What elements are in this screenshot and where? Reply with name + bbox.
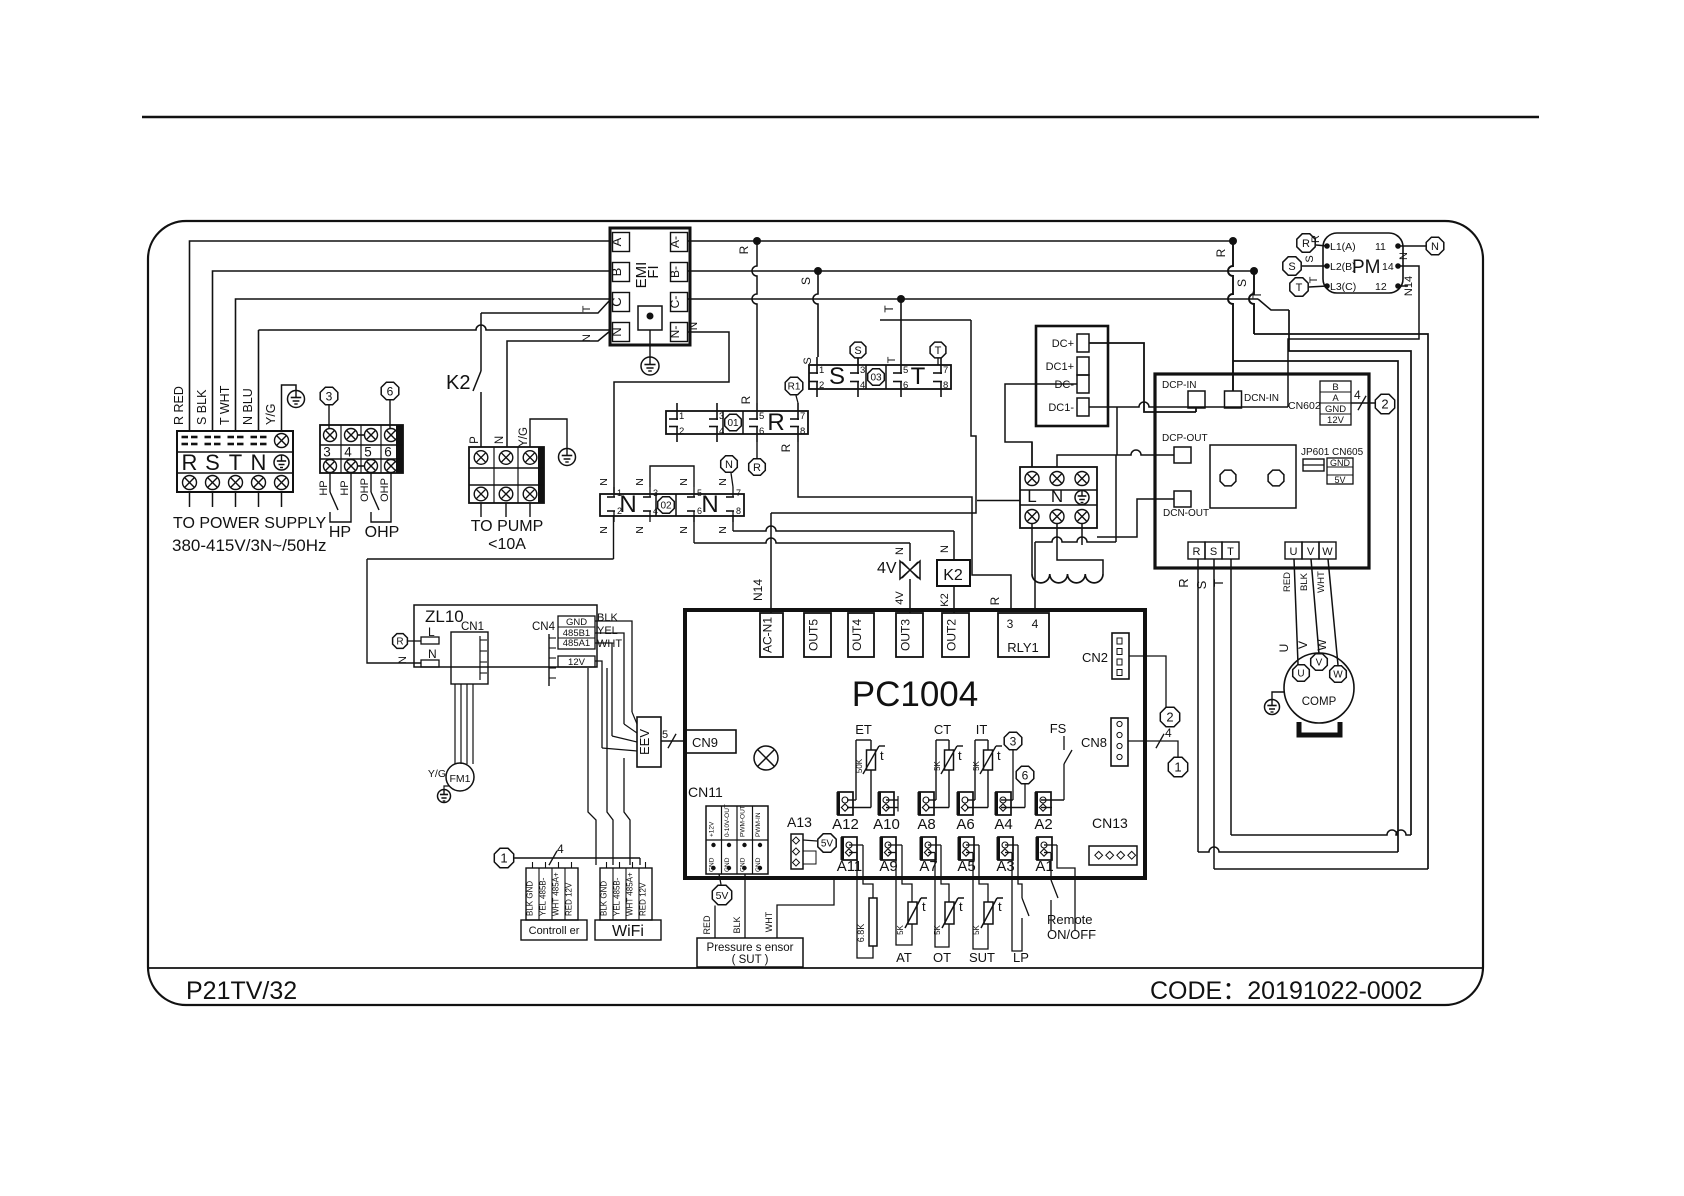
svg-text:3: 3 (653, 488, 658, 498)
svg-text:R: R (767, 409, 784, 436)
earth symbol (power supply) (288, 391, 305, 408)
svg-text:5: 5 (697, 488, 702, 498)
svg-text:CN11: CN11 (688, 784, 723, 800)
wire stub y500 (977, 500, 1020, 502)
wire T jog (1258, 299, 1289, 310)
svg-text:02: 02 (660, 501, 672, 512)
wire DC+ to DCP-IN (1089, 343, 1196, 412)
svg-text:8: 8 (943, 380, 948, 391)
svg-text:C: C (609, 297, 624, 306)
thermistor AT (902, 845, 912, 902)
switch Remote ON/OFF (1050, 853, 1052, 880)
svg-text:5: 5 (903, 365, 908, 376)
svg-text:6: 6 (387, 384, 394, 398)
svg-text:4V: 4V (877, 560, 897, 577)
relay block S/T (03) (809, 365, 951, 389)
svg-text:A4: A4 (994, 816, 1012, 833)
svg-text:R: R (396, 637, 403, 648)
terminal OUT5 (804, 613, 831, 657)
svg-text:A13: A13 (787, 814, 812, 830)
terminal OUT2 (942, 613, 969, 657)
svg-text:S: S (205, 450, 220, 475)
svg-text:N: N (1398, 252, 1410, 260)
wire T WHT (236, 299, 611, 431)
controller terminal strip (526, 868, 578, 920)
wire V (1311, 559, 1319, 654)
svg-text:R: R (753, 462, 761, 474)
svg-text:V: V (1316, 658, 1323, 669)
thermistor OT (941, 845, 949, 902)
svg-text:5: 5 (759, 411, 764, 422)
svg-text:5V: 5V (1334, 475, 1345, 485)
svg-text:T: T (1211, 579, 1226, 587)
svg-text:6: 6 (759, 426, 764, 437)
svg-text:L3(C): L3(C) (1330, 281, 1356, 293)
svg-text:A6: A6 (956, 816, 974, 833)
svg-text:R: R (1176, 578, 1191, 587)
net ref T (930, 342, 946, 358)
svg-text:N: N (428, 647, 437, 661)
wire N block pin2 (613, 515, 615, 559)
svg-text:4: 4 (719, 426, 724, 437)
wire PM 12 stub (1398, 285, 1408, 287)
DCP-IN square (1188, 391, 1205, 408)
svg-text:R: R (737, 245, 751, 254)
inverter power board (1155, 374, 1369, 568)
svg-text:W: W (1333, 670, 1343, 681)
svg-text:N: N (609, 327, 624, 336)
svg-text:N: N (678, 478, 690, 486)
wire N14 riser (771, 320, 976, 513)
svg-text:6: 6 (903, 380, 908, 391)
svg-text:2: 2 (819, 380, 824, 391)
EMI ground (649, 330, 651, 357)
svg-text:DCN-IN: DCN-IN (1244, 393, 1279, 404)
svg-text:HP: HP (339, 480, 351, 495)
svg-text:N-: N- (668, 326, 682, 339)
net ref S (850, 342, 866, 358)
svg-text:OUT5: OUT5 (807, 619, 821, 651)
svg-text:5K: 5K (933, 760, 942, 770)
terminals R S T (1188, 542, 1205, 559)
svg-text:S: S (1210, 546, 1217, 558)
DC terminal block (1036, 326, 1108, 426)
wire L top (1031, 442, 1033, 467)
svg-text:11: 11 (1375, 241, 1386, 253)
wire CN2 to ref 2 (1129, 656, 1166, 708)
svg-text:B: B (609, 268, 624, 277)
svg-text:N14: N14 (751, 579, 765, 601)
svg-text:8: 8 (800, 426, 805, 437)
svg-text:L: L (1027, 487, 1036, 506)
connector row A11..A1 (842, 837, 857, 860)
svg-text:OHP: OHP (359, 478, 371, 502)
svg-text:( SUT ): ( SUT ) (732, 954, 769, 966)
svg-text:RED: RED (1282, 572, 1293, 592)
svg-text:YEL: YEL (597, 625, 618, 637)
svg-text:t: t (998, 899, 1002, 914)
svg-text:S: S (802, 357, 814, 364)
svg-text:R RED: R RED (172, 386, 186, 425)
svg-text:3: 3 (1007, 617, 1014, 631)
svg-text:FI: FI (645, 265, 662, 278)
svg-text:N: N (634, 478, 646, 486)
svg-text:BLK: BLK (597, 612, 618, 624)
svg-text:N: N (678, 526, 690, 534)
wire pin8 to K2 coil (733, 526, 954, 531)
svg-text:BLK: BLK (732, 916, 742, 933)
svg-text:PM: PM (1352, 257, 1381, 278)
svg-text:CODE：20191022-0002: CODE：20191022-0002 (1150, 977, 1422, 1005)
svg-text:4V: 4V (894, 591, 906, 605)
svg-text:OHP: OHP (365, 524, 400, 541)
svg-text:7: 7 (943, 365, 948, 376)
svg-text:K2: K2 (939, 593, 951, 606)
svg-text:SUT: SUT (969, 950, 995, 965)
DCN-OUT square (1174, 491, 1191, 507)
svg-text:GND: GND (1325, 404, 1346, 415)
wire U (1294, 559, 1298, 664)
svg-text:Y/G: Y/G (264, 403, 278, 425)
svg-text:N: N (598, 526, 610, 534)
wire DCN-OUT link (1097, 499, 1174, 537)
terminal RLY1 (998, 613, 1049, 657)
CN2 connector (1112, 633, 1129, 679)
svg-text:V: V (1296, 641, 1310, 649)
wire N- from EMI (614, 332, 729, 493)
svg-text:N: N (701, 491, 718, 518)
svg-text:t: t (959, 899, 963, 914)
svg-text:R: R (1214, 248, 1228, 257)
svg-text:1: 1 (679, 411, 684, 422)
svg-text:FM1: FM1 (450, 773, 471, 785)
FM1 earth (444, 786, 449, 790)
EEV driver (637, 717, 661, 767)
svg-text:4: 4 (557, 842, 564, 856)
svg-text:DC1-: DC1- (1048, 402, 1074, 414)
net ref N (721, 456, 738, 473)
wire P to EMI C (481, 300, 610, 313)
svg-text:BLK: BLK (1299, 572, 1310, 591)
svg-text:YEL 485B-: YEL 485B- (539, 877, 548, 916)
svg-text:4: 4 (653, 506, 658, 516)
wire bus R (A-) (688, 240, 1233, 242)
svg-text:CN2: CN2 (1082, 650, 1108, 665)
junction S (814, 267, 822, 275)
svg-text:N: N (717, 526, 729, 534)
svg-text:T: T (1296, 282, 1303, 294)
svg-text:N: N (634, 526, 646, 534)
svg-text:S: S (1304, 255, 1316, 262)
net ref R (PM) (1297, 234, 1315, 252)
EMI filter FI (610, 228, 690, 345)
svg-text:CN602: CN602 (1288, 400, 1321, 412)
net ref R below (749, 459, 766, 476)
CN8 connector (1111, 718, 1128, 766)
svg-text:S: S (1235, 279, 1249, 287)
outer enclosure border (148, 221, 1483, 1005)
svg-text:R: R (1302, 238, 1310, 250)
net ref 6 (381, 382, 399, 400)
svg-text:A-: A- (668, 236, 682, 248)
resistor 6.8K (863, 845, 873, 898)
svg-text:N: N (686, 322, 700, 331)
relay coil K2 (937, 560, 970, 586)
svg-text:7: 7 (800, 411, 805, 422)
svg-text:DCP-OUT: DCP-OUT (1162, 433, 1208, 444)
svg-text:T: T (886, 356, 898, 363)
svg-text:B: B (1332, 382, 1338, 393)
net ref 2 (CN602) (1375, 394, 1394, 413)
svg-text:R: R (182, 450, 198, 475)
svg-text:DC-: DC- (1054, 379, 1074, 391)
svg-text:+12V: +12V (709, 821, 716, 837)
wire R RED (190, 241, 611, 431)
svg-text:8: 8 (736, 506, 741, 516)
net ref T (PM) (1290, 278, 1308, 296)
wire S drop right (1249, 271, 1254, 334)
svg-text:U: U (1277, 644, 1291, 653)
thermistor ET (A12) (847, 799, 856, 801)
svg-text:3: 3 (860, 365, 865, 376)
svg-text:t: t (880, 748, 884, 763)
terminal block HP/OHP 3-4-5-6 (320, 425, 403, 473)
wire N top (1057, 455, 1116, 467)
junction R (753, 237, 761, 245)
svg-text:AT: AT (896, 950, 912, 965)
svg-text:C-: C- (668, 296, 682, 309)
svg-text:ET: ET (855, 722, 872, 737)
wire CN602 to ref 2 (1351, 402, 1375, 404)
wire ZL10 N (367, 559, 421, 663)
svg-text:CN9: CN9 (692, 735, 718, 750)
svg-text:R: R (1310, 235, 1322, 243)
PC1004 main control board (685, 610, 1145, 878)
wire DC- to L (1005, 384, 1077, 467)
svg-text:T: T (1308, 276, 1320, 283)
wire T loop (1289, 310, 1411, 835)
wire bundle to EEV/controller (595, 621, 632, 712)
svg-text:ZL10: ZL10 (425, 607, 464, 626)
COMP earth (1272, 692, 1285, 700)
svg-text:DC+: DC+ (1052, 338, 1074, 350)
wire S loop (1254, 334, 1428, 869)
svg-text:3: 3 (323, 445, 331, 460)
svg-text:U: U (1297, 669, 1304, 680)
svg-text:A9: A9 (879, 858, 897, 875)
svg-text:FS: FS (1050, 721, 1067, 736)
svg-text:T: T (911, 363, 926, 390)
net ref S (PM) (1283, 257, 1301, 275)
svg-text:5V: 5V (716, 890, 729, 902)
svg-text:5: 5 (364, 445, 372, 460)
svg-text:<10A: <10A (488, 536, 526, 553)
svg-text:t: t (997, 748, 1001, 763)
wire W (1328, 559, 1338, 665)
svg-text:K2: K2 (943, 567, 963, 584)
wire Y/G to earth (282, 385, 297, 431)
svg-text:ON/OFF: ON/OFF (1047, 927, 1096, 942)
svg-text:WiFi: WiFi (612, 923, 644, 940)
relay block R (01) (666, 411, 808, 434)
svg-text:Pressure s ensor: Pressure s ensor (707, 942, 794, 954)
svg-text:01: 01 (727, 418, 739, 429)
wire N bus low (367, 558, 614, 560)
terminal OUT4 (848, 613, 874, 657)
svg-text:AC-N1: AC-N1 (761, 617, 775, 653)
bracket pins 3-5 (650, 466, 694, 487)
svg-text:T: T (229, 450, 242, 475)
svg-text:T: T (935, 345, 942, 357)
svg-text:7: 7 (736, 488, 741, 498)
svg-text:380-415V/3N~/50Hz: 380-415V/3N~/50Hz (172, 536, 327, 555)
ZL10 fan board (414, 605, 597, 667)
svg-text:S: S (854, 345, 861, 357)
svg-text:2: 2 (1166, 710, 1173, 725)
svg-text:N: N (894, 547, 906, 555)
svg-text:2: 2 (679, 426, 684, 437)
svg-text:A10: A10 (873, 816, 900, 833)
svg-text:0-10V-OUT: 0-10V-OUT (724, 804, 731, 837)
svg-text:JP601: JP601 (1301, 447, 1330, 458)
terminal block L N (1020, 467, 1097, 528)
thermistor SUT (979, 845, 988, 902)
wire R loop (1233, 361, 1398, 852)
svg-text:CN8: CN8 (1081, 735, 1107, 750)
svg-text:OT: OT (933, 950, 951, 965)
svg-text:4: 4 (860, 380, 865, 391)
svg-text:A8: A8 (917, 816, 935, 833)
svg-text:50K: 50K (855, 758, 864, 773)
svg-text:BLK GND: BLK GND (600, 881, 609, 916)
IPM module (1210, 445, 1296, 508)
wire pin6 to 4V valve (694, 538, 910, 543)
svg-text:R1: R1 (788, 382, 801, 393)
svg-text:A11: A11 (837, 858, 863, 875)
earth symbol (pump) (559, 449, 576, 466)
svg-text:L1(A): L1(A) (1330, 241, 1356, 253)
svg-text:RED: RED (702, 915, 712, 935)
net ref R1 (785, 377, 803, 395)
svg-text:RED 12V: RED 12V (639, 882, 648, 916)
switch HP (329, 473, 331, 492)
svg-text:R: R (779, 443, 793, 452)
svg-text:EEV: EEV (637, 729, 652, 755)
svg-text:Controll er: Controll er (529, 925, 580, 937)
svg-text:CT: CT (934, 722, 951, 737)
svg-text:1: 1 (617, 488, 622, 498)
svg-text:OHP: OHP (379, 478, 391, 502)
svg-text:14: 14 (1382, 261, 1394, 273)
thermistor IT (A6) (967, 799, 975, 801)
svg-text:PWM-IN: PWM-IN (755, 812, 762, 837)
controller box (521, 920, 587, 940)
wire DC1- (1089, 402, 1288, 407)
svg-text:PWM-OUT: PWM-OUT (740, 805, 747, 837)
svg-text:3: 3 (326, 389, 333, 403)
svg-text:LP: LP (1013, 950, 1029, 965)
signal table GND/485B1/485A1/12V (558, 616, 595, 649)
wire T drop to relay S/T (900, 299, 902, 357)
svg-text:DCP-IN: DCP-IN (1162, 380, 1196, 391)
net ref 1 (CN8) (1168, 757, 1187, 776)
svg-text:TO PUMP: TO PUMP (471, 518, 544, 535)
wire CN8 to ref 1 (1128, 741, 1178, 757)
svg-text:S BLK: S BLK (195, 389, 209, 425)
COMP mount (1299, 722, 1340, 735)
svg-text:Y/G: Y/G (518, 427, 530, 447)
board lamp (754, 746, 778, 770)
wire N BLU (258, 330, 260, 431)
wire bus S (B-) (688, 270, 1254, 272)
net ref 3 (board) (1004, 732, 1022, 750)
wire EEV to CN9 (661, 740, 686, 742)
svg-text:4: 4 (344, 445, 352, 460)
svg-text:B-: B- (668, 266, 682, 278)
svg-text:S: S (799, 277, 813, 285)
wire R drop to relay R (752, 241, 757, 403)
svg-text:4: 4 (1032, 617, 1039, 631)
svg-text:CN4: CN4 (532, 621, 556, 633)
svg-text:CN13: CN13 (1092, 815, 1128, 831)
svg-text:OUT3: OUT3 (899, 619, 913, 651)
svg-text:5: 5 (662, 729, 668, 741)
footer divider (148, 967, 1483, 969)
junction T (897, 295, 905, 303)
svg-text:COMP: COMP (1302, 696, 1337, 708)
svg-text:N: N (1051, 487, 1063, 506)
switch OHP (370, 473, 372, 492)
svg-text:R: R (988, 596, 1002, 605)
svg-text:12: 12 (1375, 281, 1387, 293)
svg-text:WHT 485A+: WHT 485A+ (626, 872, 635, 916)
svg-text:5K: 5K (896, 924, 905, 934)
svg-text:A2: A2 (1034, 816, 1052, 833)
svg-text:IT: IT (976, 722, 988, 737)
svg-text:1: 1 (819, 365, 824, 376)
svg-text:N: N (725, 459, 733, 471)
svg-text:P21TV/32: P21TV/32 (186, 977, 297, 1005)
DCN-IN square (1225, 391, 1242, 408)
svg-text:WHT: WHT (764, 911, 774, 932)
svg-text:T: T (1227, 546, 1234, 558)
svg-text:A: A (609, 237, 624, 246)
svg-text:A12: A12 (832, 816, 859, 833)
svg-text:OUT2: OUT2 (945, 619, 959, 651)
svg-text:5V: 5V (821, 839, 834, 850)
net ref N (PM) (1426, 237, 1444, 255)
wire Y/G pump earth (530, 419, 567, 448)
net ref R (ZL10) (393, 634, 408, 649)
svg-text:W: W (1315, 639, 1329, 651)
svg-text:GND: GND (566, 617, 587, 628)
svg-text:CN1: CN1 (461, 621, 484, 633)
svg-text:W: W (1322, 546, 1333, 558)
svg-text:5K: 5K (972, 760, 981, 770)
svg-text:OUT4: OUT4 (850, 619, 864, 651)
svg-text:U: U (1290, 546, 1298, 558)
wire DCP-OUT link (1116, 450, 1174, 455)
svg-text:R: R (739, 395, 753, 404)
svg-text:N: N (581, 334, 593, 342)
svg-text:1: 1 (1174, 760, 1181, 775)
svg-text:S: S (829, 363, 845, 390)
terminal block TO PUMP (469, 447, 544, 503)
svg-text:N: N (251, 450, 267, 475)
compressor COMP (1284, 653, 1354, 723)
reactor coil (1031, 524, 1033, 574)
svg-text:2: 2 (617, 506, 622, 516)
